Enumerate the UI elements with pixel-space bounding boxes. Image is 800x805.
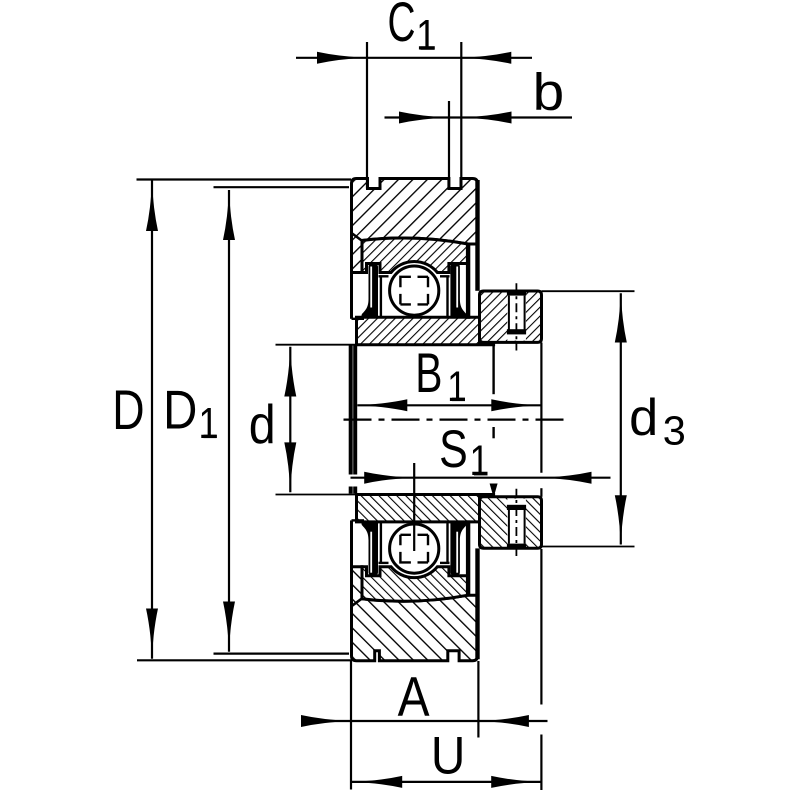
svg-text:B: B (415, 343, 442, 405)
svg-text:1: 1 (447, 364, 466, 411)
svg-text:b: b (533, 64, 565, 121)
svg-text:S: S (439, 420, 468, 479)
svg-text:D: D (163, 380, 197, 441)
svg-text:1: 1 (416, 12, 436, 59)
svg-text:d: d (629, 389, 658, 447)
svg-text:D: D (112, 378, 144, 441)
svg-text:C: C (388, 0, 416, 54)
svg-text:3: 3 (663, 408, 686, 454)
svg-text:1: 1 (470, 437, 490, 485)
svg-text:U: U (431, 725, 465, 785)
svg-text:d: d (249, 393, 276, 455)
svg-text:1: 1 (199, 400, 219, 448)
svg-text:A: A (398, 666, 430, 728)
